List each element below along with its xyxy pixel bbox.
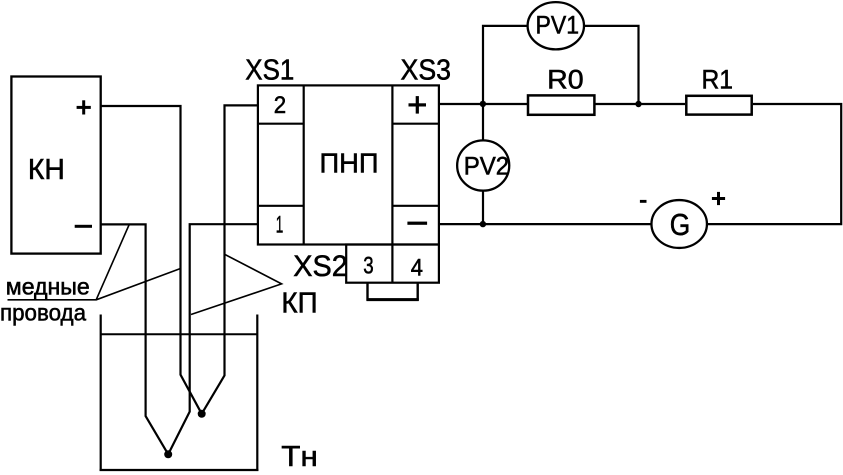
svg-text:PV2: PV2 — [464, 153, 510, 181]
svg-text:КП: КП — [281, 287, 317, 319]
svg-text:PV1: PV1 — [536, 12, 580, 40]
svg-text:провода: провода — [0, 300, 86, 326]
svg-text:G: G — [670, 207, 691, 242]
svg-text:медные: медные — [6, 274, 90, 300]
svg-text:XS1: XS1 — [245, 55, 294, 87]
svg-text:R0: R0 — [547, 64, 584, 94]
svg-text:3: 3 — [363, 253, 373, 280]
svg-text:R1: R1 — [702, 65, 734, 95]
svg-text:XS3: XS3 — [401, 55, 452, 87]
svg-text:КН: КН — [28, 154, 65, 186]
svg-text:4: 4 — [411, 255, 423, 282]
svg-text:ПНП: ПНП — [320, 148, 379, 179]
svg-text:1: 1 — [276, 211, 284, 238]
svg-text:Тн: Тн — [281, 441, 318, 473]
svg-text:2: 2 — [274, 92, 286, 119]
svg-text:XS2: XS2 — [293, 250, 348, 283]
